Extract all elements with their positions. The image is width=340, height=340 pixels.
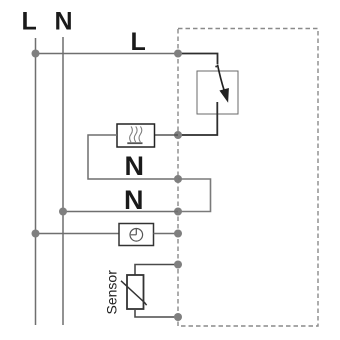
wire sensor bottom [135,309,178,317]
wire L bus [35,38,37,325]
wire clock feed from L bus [36,233,120,235]
heater element box [117,124,155,147]
junction dot on N bus [59,208,67,216]
heater icon: base bar [127,142,142,144]
terminal 1 [174,50,182,58]
terminal 2 [174,131,182,139]
wire L feed to thermostat [36,53,179,55]
wire heater live [155,134,179,136]
wire N bus [62,37,64,325]
thermistor sensor body [127,275,144,309]
timer clock icon [130,229,143,242]
svg-text:N: N [125,151,145,181]
junction dot on L bus (clock) [32,230,40,238]
terminal 3 [174,175,182,183]
terminal 5 [174,230,182,238]
wire switch feed (inside) [178,54,218,65]
wire clock to terminal [154,233,179,235]
relay switch box [197,71,238,114]
svg-text:N: N [55,8,73,36]
thermostat enclosure (dashed) [178,29,318,327]
svg-text:L: L [131,28,146,56]
junction dot on L bus [32,50,40,58]
wire switch output (inside) [178,102,217,135]
wire jumper terminal3-terminal4 (inside) [178,179,211,212]
wire sensor top [135,265,178,276]
wire heater neutral loop [88,135,178,179]
svg-text:L: L [22,8,37,36]
svg-text:N: N [124,185,144,215]
timer clock box [119,224,154,246]
terminal 7 [174,313,182,321]
heater icon: three heat waves [130,126,133,142]
switch blade with arrow [218,65,225,91]
switch pivot dot [215,66,217,68]
wire neutral return to N bus [63,211,178,213]
terminal 6 [174,261,182,269]
terminal 4 [174,208,182,216]
thermistor diagonal [121,281,147,305]
svg-text:Sensor: Sensor [104,270,120,315]
